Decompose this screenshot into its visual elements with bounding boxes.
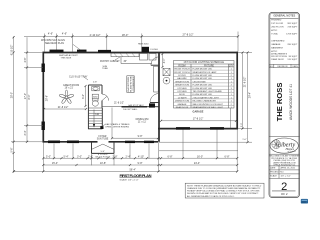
logo box divider [269, 136, 300, 138]
garage entry door arc [150, 94, 159, 103]
chase dark block at wall junction [149, 103, 155, 107]
dimension tick marks [13, 35, 249, 172]
window label top wall 1 [50, 50, 64, 53]
garage door header labels [176, 127, 190, 130]
notes rows [271, 19, 287, 60]
outer border [269, 12, 300, 197]
leader line [73, 44, 81, 50]
page number [269, 177, 300, 179]
dining interior dim [112, 137, 158, 139]
front wall (house) [43, 141, 159, 143]
Liberty logo [270, 138, 298, 153]
revision table header [269, 63, 300, 65]
window note with leader [41, 39, 65, 45]
rear door arc into kitchen [151, 57, 159, 65]
window label top wall 3 [98, 50, 111, 53]
stair side wall [101, 108, 103, 129]
garage right wall [236, 52, 238, 129]
dark appliance blob at kitchen top [142, 47, 150, 53]
shared house/garage wall [158, 52, 160, 142]
great room interior dim [44, 108, 86, 110]
stairs [88, 108, 102, 126]
extension drops [42, 142, 44, 172]
garage label [193, 111, 204, 114]
window label top wall 2 [77, 50, 87, 52]
kitchen/dining wall [102, 106, 121, 108]
garage front wall [158, 128, 238, 130]
top dimension line [24, 32, 238, 52]
left wall window marks [42, 64, 45, 73]
garage inner dim [162, 54, 164, 67]
porch label [95, 151, 110, 158]
left wall [42, 52, 44, 142]
row 3 overall [14, 170, 237, 172]
kitchen island [127, 76, 134, 93]
dining vertical dim [111, 108, 113, 139]
front wall window labels [48, 141, 60, 144]
powder room walls [88, 85, 102, 129]
furnace [163, 68, 170, 75]
front door opening [98, 140, 109, 143]
disclaimer note box [185, 183, 264, 198]
foyer label [97, 136, 109, 140]
info table [269, 165, 300, 167]
address divider [269, 153, 300, 155]
row 2 [43, 164, 237, 166]
powder cabinet label [92, 94, 98, 99]
ceiling fan great room [59, 90, 74, 104]
label near kitchen top [138, 42, 158, 50]
garage interior dim [161, 120, 236, 122]
top dimension texts [48, 32, 194, 37]
chase between kitchen and garage wall [154, 66, 159, 92]
porch [92, 142, 115, 154]
powder sink [92, 86, 99, 90]
pantry cabinet [111, 53, 139, 56]
dim left of powder [85, 86, 87, 106]
dining room label [136, 118, 149, 124]
stair arrow [93, 110, 95, 127]
row 1 [43, 157, 237, 159]
shiplap label below wall [59, 54, 78, 59]
stairs note [105, 123, 130, 128]
stair bottom wall [88, 128, 102, 130]
top wall [43, 52, 239, 54]
porch gable [92, 144, 115, 149]
great room labels [63, 75, 88, 89]
kitchen counters [120, 57, 122, 64]
powder toilet [93, 99, 98, 101]
water heater [163, 77, 170, 84]
powder door arc [102, 94, 109, 101]
